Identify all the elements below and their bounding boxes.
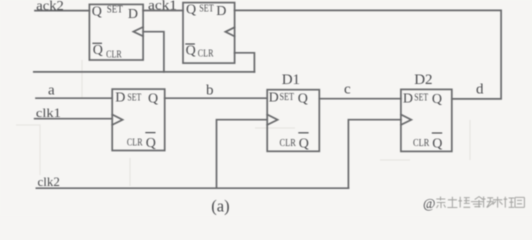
svg-text:d: d (476, 81, 484, 97)
faint scan ghost artifacts (16, 60, 470, 186)
wire top clock line (34, 71, 255, 73)
wire clk2 (36, 187, 348, 189)
wire U1 clock to top clock line (143, 32, 164, 72)
svg-text:Q: Q (148, 91, 158, 106)
svg-text:ack1: ack1 (148, 0, 177, 13)
flip-flop D1 clock triangle (267, 115, 277, 125)
svg-text:CLR: CLR (106, 49, 122, 60)
svg-text:Q: Q (299, 136, 309, 151)
wire clk1 (U3 clock) (35, 118, 113, 120)
flip-flop U3 clock triangle (112, 115, 122, 125)
svg-text:Q: Q (93, 43, 103, 58)
wire a (U3 D input) (36, 97, 112, 99)
svg-text:CLR: CLR (280, 138, 297, 149)
svg-text:SET: SET (107, 5, 123, 16)
svg-text:Q: Q (92, 4, 102, 19)
flip-flop D2 pin labels: D SET Q / CLR Qbar (403, 91, 443, 151)
flip-flop U1 pin labels: Q SET D / Qbar CLR (92, 4, 138, 60)
wire ack1 (U2 Q to U1 D) (143, 10, 183, 12)
svg-text:Q: Q (298, 91, 308, 106)
flip-flop U1 (ack2 stage) box (89, 4, 143, 60)
svg-text:D: D (115, 91, 125, 106)
svg-text:(a): (a) (211, 196, 229, 215)
svg-text:c: c (344, 81, 351, 97)
wire D2 clock from clk2 (348, 120, 401, 189)
svg-text:clk1: clk1 (36, 105, 61, 120)
svg-text:ack2: ack2 (36, 0, 64, 14)
wire U2 clock to top clock line (235, 53, 255, 72)
svg-text:a: a (48, 82, 55, 98)
svg-text:SET: SET (414, 93, 428, 104)
svg-text:D1: D1 (282, 72, 300, 88)
flip-flop U1 clock triangle (133, 27, 143, 36)
watermark CJK-style glyph strokes (436, 197, 524, 209)
flip-flop U2 clock triangle (225, 27, 234, 36)
svg-text:D: D (128, 7, 138, 22)
wire D1 clock from clk2 (217, 120, 268, 189)
flip-flop U2 pin labels: Q SET D / Qbar CLR (185, 2, 226, 59)
flip-flop D2 clock triangle (401, 115, 411, 125)
svg-text:Q: Q (186, 2, 196, 17)
svg-text:Q: Q (146, 136, 156, 151)
flip-flop U3 (input stage) box (112, 89, 165, 150)
svg-text:D2: D2 (414, 72, 432, 88)
svg-text:D: D (403, 91, 413, 106)
svg-text:CLR: CLR (198, 49, 214, 60)
svg-text:@: @ (423, 196, 435, 211)
flip-flop D1 pin labels: D SET Q / CLR Qbar (269, 91, 309, 152)
svg-text:SET: SET (127, 92, 141, 103)
svg-text:SET: SET (199, 4, 214, 15)
svg-text:CLR: CLR (413, 138, 430, 149)
flip-flop D1 box (267, 90, 319, 152)
svg-text:Q: Q (432, 136, 442, 151)
flip-flop U3 pin labels: D SET Q / CLR Qbar (115, 91, 158, 151)
svg-text:b: b (206, 82, 214, 98)
flip-flop U2 (ack1 stage) box (183, 3, 235, 64)
flip-flop D2 box (401, 89, 452, 151)
svg-text:D: D (269, 91, 279, 106)
wire U2 D input from node d (235, 10, 502, 99)
svg-text:clk2: clk2 (38, 174, 60, 189)
wire b (U3 Q to D1 D) (165, 97, 268, 99)
svg-text:CLR: CLR (127, 138, 143, 149)
svg-text:D: D (216, 4, 226, 19)
wire ack2 (U1 Q output) (35, 10, 89, 12)
svg-text:SET: SET (280, 92, 295, 103)
svg-text:Q: Q (432, 92, 442, 107)
svg-text:Q: Q (186, 44, 196, 59)
wire c (D1 Q to D2 D) (319, 98, 401, 100)
